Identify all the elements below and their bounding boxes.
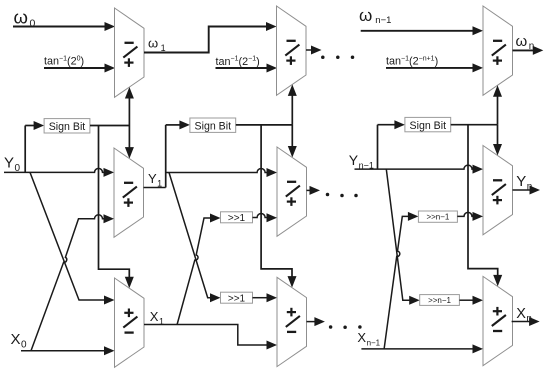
cross wire B3 (X_n-1 to shifter) — [384, 216, 411, 349]
wire Y_1 output — [144, 187, 166, 189]
Y_0 input wire — [4, 168, 105, 172]
wire omega_1 to stage 2 — [144, 27, 267, 53]
sign bit riser stage 1 — [24, 126, 26, 173]
sign drop wire stage 3 — [468, 125, 498, 279]
sign bit box B3 — [405, 117, 451, 131]
cross wire B1 (X_0 to Y adder) — [31, 219, 95, 351]
sign bit box B3 input wire — [378, 124, 396, 126]
cross wire B2 (X_1 to shifter) — [177, 218, 211, 325]
ellipsis dots X row — [329, 325, 333, 329]
sign bit box B1 output wire — [90, 125, 129, 127]
Y stage 2 output arrow — [307, 189, 312, 191]
Y_n-1 input wire — [355, 165, 474, 169]
sign bit box B2 — [190, 118, 236, 132]
cross wire B2 arrowhead — [210, 214, 221, 223]
Y_n output wire — [513, 189, 531, 191]
wire sign to Y adder U2 — [128, 126, 130, 152]
ellipsis dots omega row — [321, 56, 325, 60]
svg-text:Sign Bit: Sign Bit — [410, 120, 447, 132]
adder-subtractor U1 (omega stage 1) — [115, 8, 145, 97]
sign bit box B2 input wire — [166, 124, 180, 126]
wire sign to omega adder U1 — [128, 95, 130, 126]
svg-text:Sign Bit: Sign Bit — [195, 121, 232, 133]
shifter >>1 lower output wire — [253, 297, 269, 299]
shifter >>n-1 upper output wire — [457, 212, 473, 216]
sign bit box B2 output wire — [236, 124, 292, 126]
svg-text:>>n−1: >>n−1 — [428, 296, 451, 305]
cross wire A2 (Y_1 to shifter) — [169, 173, 212, 298]
adder-subtractor U5 (Y stage 2) — [277, 147, 307, 236]
shifter >>1 upper output wire — [253, 214, 269, 218]
adder-subtractor U9 (X stage 3) — [483, 276, 513, 365]
shifter box >>1 upper — [221, 212, 253, 223]
omega_n output wire — [513, 49, 534, 51]
wire X_1 to stage 2 — [144, 325, 268, 346]
cross wire B1 hop segment — [94, 215, 105, 219]
X_0 input wire — [21, 350, 105, 352]
shifter >>n-1 lower output wire — [459, 299, 473, 301]
sign drop wire stage 1 — [99, 126, 130, 282]
sign bit box B1 — [44, 119, 90, 133]
svg-text:>>1: >>1 — [228, 293, 246, 304]
adder-subtractor U4 (omega stage 2) — [277, 6, 307, 95]
adder-subtractor U3 (X stage 1) — [115, 278, 145, 367]
X_n-1 input wire — [361, 348, 473, 350]
X_n output wire — [512, 321, 530, 323]
wire sign to omega adder U7 — [497, 93, 499, 125]
shifter box >>n-1 upper — [418, 211, 457, 222]
cross wire A1 (Y_0 to X adder) — [30, 172, 105, 300]
sign drop wire stage 2 — [261, 125, 292, 280]
tan-1(2^0) input wire — [44, 67, 106, 69]
svg-text:Sign Bit: Sign Bit — [49, 121, 86, 133]
adder-subtractor U7 (omega stage 3) — [483, 6, 513, 95]
shifter box >>n-1 lower — [420, 295, 460, 306]
adder-subtractor U8 (Y stage 3) — [483, 146, 513, 235]
wire sign to omega adder U4 — [291, 92, 293, 125]
sign bit box B1 input wire — [25, 125, 35, 127]
svg-text:>>1: >>1 — [228, 213, 246, 224]
wire Y_1 to stage 2 Y adder — [166, 169, 268, 173]
wire sign to Y adder U5 — [291, 125, 293, 150]
sign bit riser stage 3 — [377, 125, 379, 169]
svg-text:>>n−1: >>n−1 — [426, 213, 449, 222]
X stage 2 output arrow — [307, 321, 317, 323]
ellipsis dots Y row — [326, 193, 330, 197]
omega_n-1 input wire — [361, 30, 473, 32]
sign bit box B3 output wire — [451, 124, 498, 126]
adder-subtractor U2 (Y stage 1) — [114, 148, 144, 237]
omega stage 2 output arrow — [306, 49, 313, 51]
omega_0 input wire — [13, 26, 105, 28]
tan-1(2^-n+1) input wire — [386, 67, 474, 69]
tan-1(2^-1) input wire — [216, 67, 268, 69]
cross wire B3 arrowhead — [408, 212, 419, 221]
adder-subtractor U6 (X stage 2) — [277, 277, 307, 366]
sign bit riser stage 2 — [165, 125, 167, 188]
shifter box >>1 lower — [221, 292, 253, 303]
wire sign to Y adder U8 — [497, 125, 499, 148]
cross wire A3 (Y_n-1 to shifter) — [386, 169, 411, 300]
